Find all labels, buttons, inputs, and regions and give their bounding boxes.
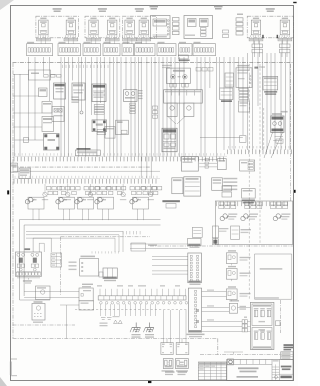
meter M3 drop wires <box>83 209 89 220</box>
wire with tag box <box>200 136 246 143</box>
resistor ladder RL1 <box>173 18 180 35</box>
stars on wires <box>196 309 199 323</box>
right zone divider dash-dot y246 <box>150 245 293 247</box>
TR contact column <box>130 103 136 113</box>
resistor stack under RE CR <box>94 105 104 115</box>
text column left of K3 <box>71 97 78 103</box>
voltage regulator box U1 <box>151 16 171 39</box>
contactor cab C label <box>214 6 223 10</box>
rectifier side box <box>99 272 103 277</box>
cabinet bottom dashed line <box>75 308 187 310</box>
fan block A <box>163 359 173 369</box>
block labels <box>162 370 189 371</box>
rectifier box dark band <box>103 268 117 279</box>
scan corner artifact bottom-left <box>0 377 7 386</box>
contactor block dark <box>162 128 177 151</box>
ground symbol G1 <box>130 323 141 338</box>
right zone divider dash-dot <box>200 354 281 356</box>
bus wire y113 <box>13 112 42 114</box>
master CP relay block <box>16 252 42 276</box>
wire tag group 3 <box>271 202 288 209</box>
transfer relay TR <box>124 90 138 102</box>
reverser box right column <box>242 189 256 204</box>
dark label above zone <box>162 200 180 208</box>
sequencer contact bank <box>164 90 203 124</box>
terminal strip row 1 <box>13 153 228 161</box>
load transfer box <box>212 178 223 191</box>
terminal panel TB1 <box>27 42 53 56</box>
B BATT box <box>263 76 278 94</box>
master CP bracket <box>17 278 40 280</box>
vertical wires to bottom blocks <box>164 310 187 343</box>
equipment zone box <box>215 201 292 245</box>
tag cells right of power supply <box>196 68 213 72</box>
terminal strip row 2 <box>13 176 161 184</box>
blower tag B-B <box>241 214 258 221</box>
contact grid right of CP block <box>51 253 62 267</box>
trans filter box <box>75 148 100 156</box>
wires under G4 units <box>255 41 288 58</box>
terminal stubs x222 <box>223 30 229 38</box>
bus wire y171 <box>13 170 161 172</box>
TM box with dark blob <box>212 226 228 245</box>
PU block left margin <box>11 163 18 172</box>
cabinet outer border <box>20 220 161 301</box>
contactor group G3 MASTER CPL D <box>122 8 156 44</box>
master CP label <box>23 280 32 283</box>
fuse stack right <box>202 317 251 332</box>
relay K1 <box>39 88 48 97</box>
panel meter M2 <box>56 197 75 209</box>
junction dots under G4 <box>262 35 278 38</box>
wire tag group 2 <box>245 202 262 209</box>
dash-dot drop to battery <box>280 300 282 333</box>
terminal block stub above J1 <box>188 239 202 248</box>
wire tag ticks in cabinet <box>123 231 140 234</box>
terminal panel TB2 <box>58 42 81 56</box>
reg box right <box>239 101 250 112</box>
margin text left bottom <box>10 359 17 376</box>
contactor cab B box U2 <box>184 16 213 39</box>
ladder left of contactor block <box>153 106 158 118</box>
battery charger block outer <box>250 302 274 349</box>
coil relay with pads <box>92 120 107 132</box>
terminal panel TB6 <box>135 42 156 56</box>
wires into sig lamps <box>24 292 79 339</box>
component above power supply <box>178 55 189 63</box>
meter M5 drop wires <box>138 209 144 220</box>
battery tag box <box>276 321 281 326</box>
filter relay box <box>181 157 198 171</box>
zone divider dash-dot y167 <box>13 166 151 168</box>
relay K3 <box>72 83 85 100</box>
terminal panel TB8 <box>179 42 193 56</box>
cabinet bus wires <box>26 232 123 253</box>
6A tag above relay block <box>25 248 31 250</box>
cabinet inner border <box>24 225 160 296</box>
relay box right column upper <box>240 160 255 171</box>
revision table <box>198 362 226 380</box>
connector J2 <box>187 288 205 337</box>
contact rows to aux box <box>199 158 217 168</box>
contactor group G1 MASTER CPL D <box>36 8 78 44</box>
divider drop segment <box>217 339 219 355</box>
wire through S1 <box>13 74 56 76</box>
zone small box left <box>192 227 202 237</box>
panel meter M3 <box>75 197 94 209</box>
dashed feeder wires right <box>249 64 291 300</box>
contact block A <box>42 102 52 114</box>
right-of-connector drop wires <box>258 248 266 303</box>
panel meter M4 <box>95 197 114 209</box>
sig lamps lower box <box>79 301 94 310</box>
terminal strip row 1 right <box>228 146 292 154</box>
relay with corner pads <box>44 134 60 151</box>
notes panel <box>255 254 292 299</box>
lamp symbols below bar <box>100 318 112 327</box>
terminal panel TB7 <box>157 42 176 56</box>
contactor cab B label <box>150 6 159 10</box>
terminal panel TB3 <box>83 42 101 56</box>
power supply label above <box>162 65 172 68</box>
resistor ladder RL2 <box>236 14 243 36</box>
battery bank upper <box>252 304 272 326</box>
connector J1 feed wires <box>152 256 188 274</box>
switch panel B <box>176 343 189 355</box>
aux panel box right <box>225 73 234 87</box>
relay RE CR <box>92 84 106 102</box>
wire tag group 1 <box>219 202 236 209</box>
battery bank lower <box>252 328 272 350</box>
bus wire y96 <box>13 95 39 97</box>
left cabinet bottom dash-dot <box>13 324 76 326</box>
relay box lower center A <box>172 178 183 194</box>
power supply feet <box>170 83 189 87</box>
text rows right of load transfer <box>223 178 237 190</box>
hanging wires below bar <box>100 304 155 316</box>
wire label ticks above aux <box>92 251 118 253</box>
panel meter M1 <box>25 197 44 209</box>
terminal panel TB9 <box>193 42 216 56</box>
control box right <box>236 65 252 88</box>
TR label column <box>138 90 143 99</box>
E AO relay box <box>116 120 129 134</box>
E CL A box upper <box>36 286 51 300</box>
connector J2 right wires <box>202 290 227 321</box>
rectifier label below <box>104 280 116 281</box>
inline fuse tags <box>44 75 61 78</box>
fan block B <box>175 359 188 369</box>
wire tags left of aux gen <box>69 262 77 271</box>
left margin box pair right section <box>222 186 232 197</box>
power supply box <box>166 68 190 83</box>
ladder under control box <box>239 89 249 100</box>
cable tags under G4 unit B <box>280 44 291 53</box>
terminal panel TB5 <box>122 42 134 56</box>
ink blot bottom edge <box>148 381 151 383</box>
terminal bar circles <box>100 302 188 305</box>
aux gen panel box <box>80 256 99 276</box>
wire labels to connector <box>130 243 188 251</box>
HR battery charger label <box>284 344 294 350</box>
E CL A box lower <box>32 301 45 323</box>
scan corner artifact top-left <box>0 0 14 10</box>
meter M2 drop wires <box>64 209 70 220</box>
1 CP box in zone <box>231 226 251 239</box>
terminal bar body <box>98 296 186 300</box>
small tag right mid <box>281 111 288 113</box>
connector J1 <box>188 253 202 285</box>
switch panel A <box>161 343 173 355</box>
sprocket mark top-right edge <box>293 2 296 3</box>
small stack under coil relay <box>97 130 106 135</box>
interlock relay column <box>226 250 250 301</box>
fuse pairs below strip <box>47 187 162 195</box>
fuel pump box <box>202 300 251 313</box>
sig lamps box <box>79 284 93 301</box>
nested outline above relay block <box>33 238 51 252</box>
center zone divider dash-dot <box>13 338 218 340</box>
no-voltage relay box <box>19 168 31 178</box>
wire labels below divider <box>63 65 109 68</box>
governor box <box>220 88 233 102</box>
vertical bus wires <box>15 53 291 178</box>
junction box small <box>105 127 115 139</box>
sprocket mark left edge <box>7 190 9 194</box>
terminal strip row 3 <box>217 202 288 207</box>
node dot <box>80 111 83 114</box>
contactor group G2 MASTER CPL D <box>85 8 120 44</box>
delta symbols <box>113 316 123 324</box>
terminal panel TB4 <box>103 42 120 56</box>
wire left with tag <box>15 138 44 143</box>
switch outline S1 <box>29 70 51 80</box>
zone dash-dot corner in cabinet <box>61 237 151 296</box>
relay box lower center B <box>184 177 201 196</box>
address text bottom <box>165 371 187 375</box>
meter M4 drop wires <box>103 209 109 220</box>
contactor group G4 MASTER CPL D <box>247 8 293 44</box>
voltage relay box <box>42 117 54 132</box>
bus wire y127 <box>13 126 42 128</box>
relay K2 with label <box>54 83 66 99</box>
bus divider dash-dot y62.5 <box>13 62 294 64</box>
sheet index mini table <box>281 352 293 360</box>
terminal bar labels above <box>97 285 180 286</box>
funnel wires under gen field <box>264 133 283 159</box>
bracket above title <box>224 352 243 354</box>
terminal bar stubs <box>100 289 186 296</box>
panel meter M5 <box>130 197 149 209</box>
blower tag B-A <box>220 214 237 221</box>
wires J2 to blocks <box>162 303 182 343</box>
junction tick CAB <box>254 66 265 68</box>
blower tag B-C <box>273 214 290 221</box>
circuit breaker switches <box>42 184 154 200</box>
left zone border dash-dot <box>12 63 14 338</box>
meter M1 drop wires <box>33 209 39 220</box>
aux box right <box>218 159 227 170</box>
title block <box>227 359 293 381</box>
ground symbol G2 <box>143 323 154 338</box>
cable tags under G4 unit A <box>252 44 263 53</box>
transfer switch with X contacts <box>52 107 64 122</box>
gen field box <box>271 113 284 132</box>
sprocket mark right edge <box>294 190 296 193</box>
